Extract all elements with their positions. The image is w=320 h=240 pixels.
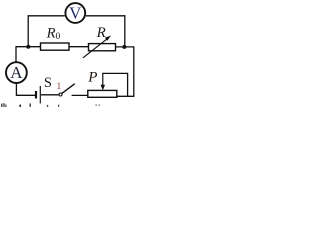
svg-text:R0: R0 (46, 25, 61, 42)
wire right outer vertical (133, 46, 135, 96)
svg-text:V: V (69, 3, 82, 22)
wire bottom-right horizontal (117, 95, 135, 97)
rheostat slider arrow (101, 73, 106, 90)
svg-text:A: A (10, 63, 23, 82)
wire R to right edge (116, 46, 134, 48)
wire battery to switch (41, 94, 59, 96)
rheostat P body (88, 90, 117, 97)
wire ammeter down (15, 83, 17, 95)
wire top-right segment (86, 15, 126, 17)
resistor R (variable) (89, 44, 116, 51)
cropped caption text marks (1, 103, 100, 107)
resistor R0 (41, 43, 70, 50)
svg-text:R: R (96, 25, 106, 41)
wire slider to right (102, 72, 127, 74)
wire right vertical branch (124, 15, 126, 47)
ammeter A (6, 62, 27, 83)
svg-text:S1: S1 (44, 75, 61, 91)
battery cell long plate (39, 86, 41, 104)
wire between R0 and R (69, 46, 89, 48)
wire left vertical branch (27, 15, 29, 47)
node junction left dot (26, 45, 30, 49)
wire slider loop vertical (127, 73, 129, 97)
switch S1 pivot (59, 93, 62, 96)
arrow through R (83, 36, 111, 58)
wire main horizontal left (16, 46, 41, 48)
wire bottom-left horizontal (16, 94, 36, 96)
svg-text:P: P (87, 70, 97, 86)
wire left outer vertical to ammeter (15, 46, 17, 62)
wire top-left segment (28, 15, 65, 17)
node junction right dot (122, 45, 126, 49)
voltmeter V (65, 3, 85, 23)
switch S1 lever (62, 84, 75, 94)
battery cell short plate (35, 91, 37, 99)
wire switch to rheostat (72, 94, 88, 96)
